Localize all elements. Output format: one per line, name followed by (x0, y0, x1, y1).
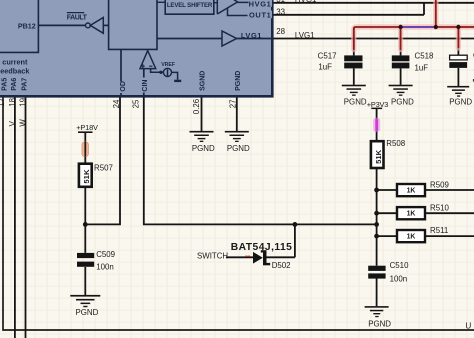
svg-text:CIN: CIN (142, 80, 149, 92)
svg-text:28: 28 (276, 27, 285, 36)
svg-text:C518: C518 (415, 51, 434, 60)
svg-text:1uF: 1uF (318, 62, 332, 71)
svg-text:OD: OD (120, 81, 127, 92)
svg-text:31: 31 (276, 0, 285, 4)
svg-text:OUT1: OUT1 (249, 11, 272, 20)
svg-text:C510: C510 (390, 261, 409, 270)
svg-text:R510: R510 (430, 204, 449, 213)
svg-text:PB12: PB12 (18, 22, 36, 31)
svg-text:PGND: PGND (76, 308, 99, 317)
svg-text:SWITCH: SWITCH (197, 251, 228, 260)
svg-text:PGND: PGND (192, 144, 215, 153)
svg-text:HVG1: HVG1 (295, 0, 317, 4)
svg-text:51K: 51K (374, 149, 383, 164)
svg-text:LVG1: LVG1 (295, 31, 315, 40)
svg-text:R509: R509 (430, 180, 449, 189)
svg-text:17: 17 (0, 98, 6, 107)
svg-text:C509: C509 (96, 250, 115, 259)
svg-text:PA7: PA7 (21, 78, 28, 91)
svg-text:25: 25 (131, 99, 140, 108)
svg-text:BAT54J,115: BAT54J,115 (231, 242, 293, 253)
svg-text:U: U (465, 322, 471, 331)
svg-text:1uF: 1uF (415, 63, 429, 72)
svg-text:VREF: VREF (161, 62, 175, 68)
svg-text:PGND: PGND (368, 320, 391, 329)
svg-text:PGND: PGND (235, 71, 242, 91)
svg-text:1K: 1K (407, 211, 416, 218)
svg-text:R508: R508 (386, 139, 405, 148)
svg-text:100n: 100n (96, 262, 114, 271)
svg-text:100n: 100n (390, 275, 408, 284)
svg-text:PGND: PGND (344, 98, 367, 107)
svg-text:PGND: PGND (391, 98, 414, 107)
svg-text:0.26: 0.26 (192, 98, 201, 114)
svg-text:27: 27 (228, 99, 237, 108)
svg-text:V: V (8, 120, 17, 126)
svg-text:eedback: eedback (0, 66, 30, 75)
svg-text:PGND: PGND (449, 98, 472, 107)
svg-text:24: 24 (112, 99, 121, 108)
svg-text:PA6: PA6 (11, 78, 18, 91)
svg-text:R507: R507 (94, 164, 113, 173)
svg-text:D502: D502 (272, 261, 291, 270)
svg-text:SGND: SGND (200, 71, 207, 91)
svg-text:LVG1: LVG1 (241, 31, 262, 40)
svg-text:19: 19 (18, 97, 27, 106)
svg-text:W: W (19, 119, 28, 127)
svg-text:PGND: PGND (227, 144, 250, 153)
svg-text:+P18V: +P18V (76, 123, 98, 132)
svg-text:PA5: PA5 (2, 78, 9, 91)
svg-text:1K: 1K (407, 234, 416, 241)
svg-text:33: 33 (276, 8, 285, 17)
svg-text:current: current (2, 58, 28, 67)
svg-text:FAULT: FAULT (67, 15, 88, 22)
svg-text:HVG1: HVG1 (249, 0, 272, 8)
svg-text:R511: R511 (430, 226, 448, 235)
svg-text:1K: 1K (407, 188, 416, 195)
svg-text:LEVEL SHIFTER: LEVEL SHIFTER (167, 2, 213, 9)
svg-text:+P3V3: +P3V3 (367, 100, 388, 109)
svg-text:51K: 51K (82, 169, 91, 184)
svg-text:18: 18 (8, 97, 17, 106)
svg-text:C517: C517 (318, 51, 337, 60)
